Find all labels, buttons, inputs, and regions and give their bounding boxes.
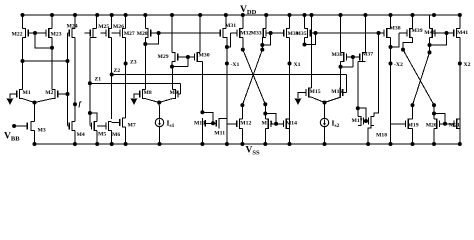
wire M18 source to VSS	[368, 126, 371, 144]
svg-text:M30: M30	[199, 53, 210, 59]
svg-text:M18: M18	[376, 133, 387, 139]
svg-text:-X2: -X2	[394, 62, 403, 68]
transistor M14	[276, 119, 297, 129]
svg-text:M17: M17	[352, 118, 363, 124]
wire VDD top rail	[23, 14, 460, 16]
junction VDD tap 15	[310, 13, 314, 17]
junction VDD tap 8	[170, 13, 174, 17]
junction VSS tap 11	[288, 142, 292, 146]
wire M19 drain up to DR2	[412, 105, 414, 119]
wire M35 drain stub	[304, 38, 306, 45]
junction VSS tap 6	[158, 142, 162, 146]
wire M23 source to VDD	[51, 15, 53, 28]
junction node X1	[288, 62, 292, 66]
wire M3 source to VSS	[34, 131, 36, 144]
transistor M24	[67, 24, 78, 39]
transistor M1	[17, 89, 31, 99]
wire M29-M30 drain link	[172, 66, 188, 68]
transistor M2	[45, 89, 67, 99]
transistor M13	[262, 119, 277, 129]
junction D2 bottom on M12 drain	[240, 103, 244, 107]
junction M35 gate node	[314, 31, 318, 35]
wire M31 source to VDD	[225, 15, 227, 28]
junction M33-M34 gate node	[269, 31, 273, 35]
wire M26 drain down to Z2 and M6	[111, 38, 113, 119]
transistor M10	[194, 118, 213, 128]
wire M16 source slant to tail	[325, 97, 341, 102]
junction M1/M2 tail node	[33, 101, 37, 105]
wire M4 source to VSS	[74, 131, 76, 144]
wire M15 drain up to VDD	[311, 15, 313, 88]
wire M27 drain down to Z3 and M7	[125, 38, 127, 118]
wire M5 drain hook to Z1 column	[90, 113, 97, 121]
junction D1 bottom on M13 drain	[263, 102, 267, 106]
wire M2 source slant to tail	[35, 99, 53, 103]
svg-text:M23: M23	[51, 32, 62, 38]
svg-text:M28: M28	[137, 31, 148, 37]
wire Z1 bus to M9 gate	[90, 82, 181, 84]
svg-text:M13: M13	[262, 121, 273, 127]
wire M35 gate diode hook	[305, 33, 316, 45]
svg-text:M19: M19	[408, 122, 419, 128]
junction VDD tap 7	[143, 13, 147, 17]
svg-text:M25: M25	[98, 24, 109, 30]
wire tail to Is1	[158, 103, 160, 119]
wire M1 source slant to tail	[23, 99, 35, 103]
input arrow M8 gate input	[131, 94, 140, 105]
junction node X2	[458, 62, 462, 66]
junction M29-M30 gate node	[186, 55, 190, 59]
wire M17 drain jog up	[357, 108, 359, 116]
wire M28 gate diode hook	[145, 33, 158, 44]
wire Is2 to VSS	[324, 127, 326, 144]
transistor M30	[188, 52, 210, 62]
svg-text:Is1: Is1	[167, 119, 175, 129]
junction node Z2	[110, 73, 114, 77]
junction M36/M16 drain junction	[339, 65, 343, 69]
wire cross diagonal DR-A (M39 drain to M20 drain)	[403, 50, 434, 106]
svg-text:Is2: Is2	[332, 119, 340, 129]
transistor M32	[231, 28, 252, 38]
wire M39 source to VDD	[412, 15, 414, 28]
junction VSS tap 5	[124, 142, 128, 146]
svg-text:M27: M27	[124, 31, 135, 37]
wire M33 drain down	[261, 38, 264, 50]
wire Is1 to VSS	[159, 127, 161, 144]
junction VSS tap 14	[389, 142, 393, 146]
wire M7 source to VSS	[125, 127, 127, 144]
transistor M8	[140, 89, 152, 99]
wire cross diagonal D1 (M32 drain to M13 drain)	[243, 50, 265, 105]
junction M8/M9 tail node	[157, 101, 161, 105]
junction bus tap M24 gate vert	[66, 59, 70, 63]
svg-text:M37: M37	[362, 52, 373, 58]
junction M2 gate tap	[66, 92, 70, 96]
junction VSS tap 7	[200, 142, 204, 146]
svg-text:M4: M4	[77, 132, 85, 138]
junction VSS tap 2	[73, 142, 77, 146]
wire M21 source to VSS	[459, 129, 461, 145]
wire M12 source to VSS	[241, 129, 243, 145]
transistor M37	[353, 52, 373, 63]
junction M22-M23 gate node	[33, 31, 37, 35]
transistor M19	[391, 119, 419, 129]
wire M11 drain jog up to -X1 column	[219, 118, 227, 120]
input arrow M15 gate input	[295, 93, 306, 106]
junction VDD tap 14	[303, 13, 307, 17]
wire M18 drain dogleg to M38 gate bus	[374, 33, 378, 116]
svg-text:Z2: Z2	[114, 68, 121, 74]
svg-text:M7: M7	[128, 123, 136, 129]
wire M36-M37 gate diode drop	[352, 57, 354, 67]
junction VDD tap 18	[389, 13, 393, 17]
junction VSS tap 15	[411, 142, 415, 146]
wire M8 source slant to tail	[145, 99, 159, 103]
junction VDD tap 10	[224, 13, 228, 17]
wire M24 source to VDD	[74, 15, 76, 28]
junction M23 diode junction	[50, 46, 54, 50]
wire M34 source to VDD	[289, 15, 291, 28]
wire M38 source to VDD	[390, 15, 392, 28]
wire M32 drain down to D1	[242, 38, 244, 50]
wire M32 gate feed to -X1	[227, 33, 231, 47]
transistor M5	[90, 121, 106, 138]
svg-text:M2: M2	[45, 90, 53, 96]
svg-text:M40: M40	[424, 30, 435, 36]
wire VSS bottom rail	[33, 143, 462, 145]
wire M25 drain zigzag to Z1	[90, 37, 93, 39]
junction M35 diode junction	[303, 43, 307, 47]
junction VSS tap 4	[110, 142, 114, 146]
transistor M38	[384, 26, 401, 39]
transistor M12	[227, 119, 252, 129]
transistor M18	[366, 116, 387, 139]
junction M28 gate node	[157, 31, 161, 35]
junction VDD tap 4	[95, 13, 99, 17]
wire M19 source to VSS	[412, 129, 414, 145]
junction M28 drain diode junction	[143, 42, 147, 46]
wire M33 gate diode hook	[262, 33, 270, 45]
transistor M6	[97, 121, 120, 138]
svg-text:M3: M3	[38, 128, 46, 134]
wire cross diagonal D2 (M33 drain to M12 drain)	[242, 50, 262, 106]
wire M39 gate feed to -X2	[391, 33, 400, 47]
junction VDD tap 21	[458, 13, 462, 17]
wire M41 drain to X2 column	[459, 38, 461, 144]
svg-text:M29: M29	[158, 54, 169, 60]
svg-text:M8: M8	[144, 90, 152, 96]
wire M35 source to VDD	[304, 15, 306, 28]
transistor M21	[445, 119, 460, 129]
transistor M31	[159, 23, 237, 38]
wire M20 diode hook	[434, 114, 445, 124]
wire bias riser M17 drain to M37 drain	[357, 62, 359, 108]
svg-text:M36: M36	[332, 52, 343, 58]
svg-text:VBB: VBB	[4, 132, 20, 143]
junction M32 gate tap on -X1	[225, 45, 229, 49]
current source Is1	[155, 118, 174, 129]
wire M13 diode hook	[265, 114, 276, 124]
wire M28 source to VDD	[144, 15, 146, 28]
junction VDD tap 1	[21, 13, 25, 17]
junction D1 top	[241, 48, 245, 52]
svg-text:Z1: Z1	[95, 77, 102, 83]
transistor M26	[101, 24, 125, 38]
svg-text:M6: M6	[112, 132, 120, 138]
wire M36-M37 drain link	[341, 66, 353, 68]
input arrow M1 gate input	[7, 94, 17, 105]
transistor M27	[112, 28, 135, 38]
junction VDD tap 6	[124, 13, 128, 17]
transistor M17	[352, 116, 366, 126]
wire M29 source to VDD	[171, 15, 173, 52]
junction VDD tap 13	[288, 13, 292, 17]
wire M8 drain up to M28	[144, 44, 146, 89]
junction node -X1	[225, 62, 229, 66]
junction M17 drain node	[356, 106, 360, 110]
junction VSS tap 16	[432, 142, 436, 146]
wire cross diagonal DR-B (M40 drain to M19 drain)	[413, 52, 430, 105]
wire M3 drain up to tail	[34, 103, 36, 122]
junction VSS tap 1	[33, 142, 37, 146]
wire M31 drain to -X1 column	[226, 38, 227, 144]
svg-text:M9: M9	[170, 90, 178, 96]
junction DR-B bottom on M19 drain	[411, 103, 415, 107]
junction M36-M37 gate node	[351, 55, 355, 59]
junction M40-M41 gate node	[445, 31, 449, 35]
junction VDD tap 2	[50, 13, 54, 17]
svg-text:M10: M10	[194, 120, 205, 126]
transistor M4	[68, 121, 85, 138]
wire M29-M30 gate diode drop	[187, 57, 189, 67]
wire bus M1 drain to M24/M2 gates	[23, 60, 68, 62]
junction VDD tap 12	[264, 13, 268, 17]
junction VDD tap 3	[73, 13, 77, 17]
junction VSS tap 10	[263, 142, 267, 146]
junction VDD tap 19	[411, 13, 415, 17]
wire M40 source to VDD	[429, 15, 431, 28]
wire M36 source to VDD	[340, 15, 342, 52]
transistor M28	[137, 28, 159, 38]
wire M20 drain up to DR1	[433, 105, 435, 119]
svg-text:M35: M35	[296, 31, 307, 37]
transistor M15	[306, 87, 321, 97]
transistor M29	[158, 52, 188, 62]
transistor M34	[271, 28, 299, 38]
junction M20-M21 gate node	[443, 122, 447, 126]
wire M10 source to VSS	[201, 128, 203, 144]
wire M13 source to VSS	[264, 129, 266, 145]
junction M9/M29 drain junction	[170, 65, 174, 69]
wire M20 source to VSS	[433, 129, 435, 145]
wire M38 drain to -X2 column	[390, 38, 392, 144]
svg-text:M12: M12	[240, 121, 251, 127]
wire M12 drain up to D2	[241, 105, 243, 119]
wire M23 drain down to M2 drain	[51, 38, 53, 90]
junction VDD tap 9	[198, 13, 202, 17]
svg-text:M39: M39	[412, 28, 423, 34]
svg-text:X1: X1	[294, 62, 301, 68]
current source Is2	[320, 118, 339, 129]
wire Z2 corner drop	[345, 75, 347, 93]
svg-text:M21: M21	[449, 122, 460, 128]
junction node Z1	[88, 81, 92, 85]
junction M13 drain tap	[263, 112, 267, 116]
svg-text:f: f	[79, 99, 83, 108]
wire M37 source to VDD	[364, 15, 366, 52]
wire M16 gate feed from Z2 corner	[343, 92, 347, 94]
junction DR-A top	[401, 48, 405, 52]
wire VBB to M3 gate	[14, 125, 25, 127]
wire M22/M23 gate to M23 drain (diode)	[35, 33, 52, 48]
wire M30 drain wide jog to riser	[197, 61, 202, 63]
junction M13-M14 gate node	[274, 122, 278, 126]
svg-text:M15: M15	[310, 89, 321, 95]
wire M5 source to VSS	[96, 131, 98, 144]
svg-text:VSS: VSS	[246, 146, 260, 157]
svg-text:M24: M24	[67, 24, 78, 30]
transistor M7	[112, 117, 136, 128]
wire M33 source to VDD	[265, 15, 267, 28]
svg-text:X2: X2	[464, 62, 471, 68]
wire M10 diode hook	[202, 112, 213, 123]
wire M1 drain up	[22, 61, 24, 89]
junction M39 gate tap on -X2	[389, 45, 393, 49]
svg-text:M41: M41	[457, 30, 468, 36]
svg-text:M22: M22	[12, 32, 23, 38]
wire M9 source slant to tail	[159, 99, 172, 103]
wire M41 source to VDD	[459, 15, 461, 28]
svg-text:M33: M33	[251, 31, 262, 37]
wire M24/M2/M4 gate vertical	[67, 33, 69, 126]
junction DR-B top	[428, 50, 432, 54]
wire M17 diode hook	[358, 108, 366, 121]
wire M13 drain up to D1	[264, 104, 266, 119]
junction M20 drain tap	[432, 112, 436, 116]
wire M36 drain down to M16 drain	[340, 62, 342, 88]
junction VBB node	[12, 124, 16, 128]
svg-text:Z3: Z3	[130, 60, 137, 66]
wire M35-M38 gate bus	[316, 32, 385, 34]
svg-text:M11: M11	[214, 130, 225, 136]
wire M26 source to VDD	[111, 15, 113, 28]
junction D2 top	[260, 48, 264, 52]
wire M28 drain down to M8 drain	[144, 38, 146, 90]
junction node -X2	[389, 62, 393, 66]
transistor M25	[85, 24, 110, 38]
wire M34 drain to X1 column	[289, 38, 291, 144]
wire M32 source to VDD	[242, 15, 244, 28]
transistor M16	[331, 87, 343, 97]
junction M15/M16 tail node	[323, 101, 327, 105]
wire M27 source to VDD	[125, 15, 127, 28]
transistor M22	[12, 28, 36, 38]
wire M37 drain wide jog to riser	[358, 61, 363, 63]
svg-text:M31: M31	[225, 23, 236, 29]
transistor M11	[213, 118, 225, 136]
junction VDD tap 16	[339, 13, 343, 17]
junction node Z3	[124, 62, 128, 66]
transistor M9	[170, 89, 181, 99]
junction VDD tap 20	[432, 13, 436, 17]
junction VDD tap 5	[110, 13, 114, 17]
svg-text:M16: M16	[331, 89, 342, 95]
wire M22 drain down	[22, 38, 24, 61]
svg-text:M14: M14	[286, 121, 297, 127]
wire M30 source to VDD	[199, 15, 201, 52]
wire M14 source to VSS	[289, 129, 291, 145]
junction VDD tap 17	[363, 13, 367, 17]
transistor M39	[399, 28, 423, 38]
junction VSS tap 13	[366, 142, 370, 146]
junction VSS tap 3	[95, 142, 99, 146]
junction M10 drain node	[200, 110, 204, 114]
junction M33 diode junction	[260, 43, 264, 47]
svg-text:-X1: -X1	[231, 62, 240, 68]
junction M40 diode junction	[428, 43, 432, 47]
wire M29 drain to M9 drain	[171, 62, 173, 67]
svg-text:M20: M20	[426, 122, 437, 128]
junction M5 drain tap	[88, 111, 92, 115]
junction VSS tap 12	[323, 142, 327, 146]
wire M24 drain down to f and M4	[74, 38, 76, 122]
transistor M41	[447, 28, 469, 38]
junction M10-M11 gate node	[211, 121, 215, 125]
svg-text:M1: M1	[23, 90, 31, 96]
wire M40 drain down	[429, 38, 431, 53]
transistor M20	[426, 119, 445, 129]
wire tail to Is2	[324, 103, 326, 119]
wire M6 source to VSS	[111, 131, 113, 144]
svg-text:M38: M38	[390, 26, 401, 32]
wire bias riser M10 drain to M30 drain	[201, 62, 203, 113]
transistor M35	[296, 28, 316, 38]
junction node A (M1 drain / bus)	[21, 59, 25, 63]
junction VDD tap 11	[241, 13, 245, 17]
wire M9 drain up	[171, 67, 173, 90]
junction VSS tap 17	[458, 142, 462, 146]
wire M15 source slant to tail	[312, 97, 325, 102]
wire M39 drain hook to DR-A	[403, 38, 413, 50]
junction M18 tap on gate bus	[377, 31, 381, 35]
transistor M33	[251, 28, 271, 38]
junction VSS tap 8	[225, 142, 229, 146]
transistor M3	[25, 121, 46, 134]
transistor M23	[35, 28, 62, 38]
wire M25 source to VDD	[96, 15, 98, 28]
transistor M36	[332, 52, 353, 62]
wire Z2 bus to M16 gate	[112, 74, 347, 76]
junction VSS tap 9	[240, 142, 244, 146]
wire M9 gate to Z1 bus	[180, 83, 182, 94]
junction M17-M18 gate node	[364, 119, 368, 123]
junction node f	[73, 102, 77, 106]
wire M40 gate diode hook	[430, 33, 447, 45]
svg-text:M5: M5	[98, 132, 106, 138]
wire M22 source to VDD	[22, 15, 24, 28]
transistor M40	[424, 28, 446, 38]
junction DR-A bottom on M20 drain	[432, 103, 436, 107]
